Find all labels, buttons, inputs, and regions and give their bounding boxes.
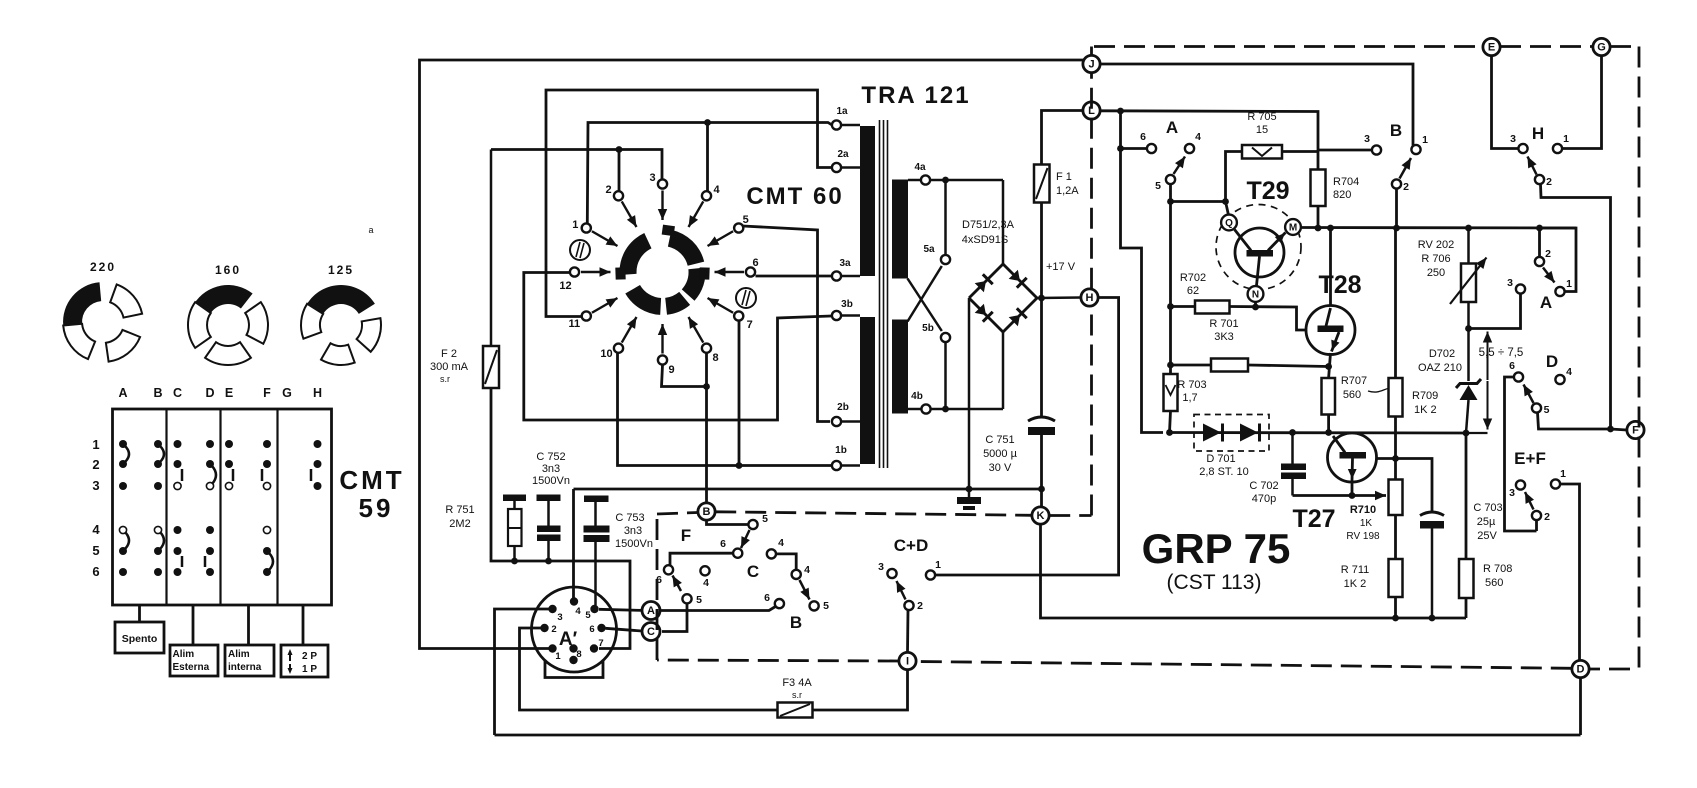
zener diode D702 OAZ210 <box>1418 329 1481 434</box>
svg-text:3: 3 <box>878 561 884 573</box>
node L <box>1083 102 1100 119</box>
svg-text:F 1: F 1 <box>1056 171 1072 183</box>
svg-text:R 751: R 751 <box>445 504 474 516</box>
svg-text:2 P: 2 P <box>302 651 317 662</box>
svg-text:62: 62 <box>1187 285 1199 297</box>
svg-text:1a: 1a <box>836 106 848 117</box>
svg-text:6: 6 <box>720 538 726 550</box>
svg-text:250: 250 <box>1427 267 1445 279</box>
svg-text:RV 198: RV 198 <box>1346 531 1380 542</box>
transformer secondary terminal 5b <box>922 323 950 342</box>
svg-text:2M2: 2M2 <box>449 518 470 530</box>
svg-text:interna: interna <box>228 662 262 673</box>
svg-text:T29: T29 <box>1246 177 1289 205</box>
wire rail loop to A right contact 1 <box>1540 228 1577 292</box>
svg-text:5b: 5b <box>922 323 934 334</box>
junction RV202 on rail <box>1465 225 1472 232</box>
svg-text:2: 2 <box>92 457 99 472</box>
node F <box>1627 421 1644 438</box>
svg-text:1500Vn: 1500Vn <box>532 475 570 487</box>
junction T28 emitter/R707 <box>1325 363 1332 370</box>
node K <box>1032 507 1049 524</box>
connector A' pin 7 <box>590 644 598 652</box>
svg-text:R707: R707 <box>1341 375 1367 387</box>
wire A' pin4 up to ground rail <box>572 489 575 602</box>
svg-text:1,2A: 1,2A <box>1056 185 1079 197</box>
switch H moving contact arrow 2-3 <box>1528 157 1537 175</box>
CMT60 terminal 4 with contact arrow <box>689 184 721 227</box>
svg-text:(CST 113): (CST 113) <box>1167 571 1262 594</box>
wire switch A contact5 down the bias chain <box>1169 184 1172 374</box>
svg-text:25µ: 25µ <box>1477 516 1496 528</box>
svg-text:R702: R702 <box>1180 272 1206 284</box>
node H <box>1081 289 1098 306</box>
svg-text:7: 7 <box>598 638 603 649</box>
CMT60 terminal 7 with contact arrow <box>708 298 753 331</box>
junction switch A right on rail <box>1536 225 1543 232</box>
svg-text:A: A <box>1540 293 1552 312</box>
svg-text:1b: 1b <box>835 445 847 456</box>
resistor R751 2M2 <box>445 495 526 562</box>
wire R711 bottom to rail <box>1394 597 1397 618</box>
svg-text:N: N <box>1252 290 1259 301</box>
connector A' keying pin <box>569 656 577 664</box>
svg-text:4: 4 <box>778 537 784 549</box>
junction R703/D701 <box>1166 429 1173 436</box>
wire T28 collector up to rail <box>1329 228 1332 306</box>
wire F contact6 to contact6 left <box>670 553 734 565</box>
svg-text:F3 4A: F3 4A <box>782 677 812 689</box>
wire T28 emitter down <box>1329 353 1331 378</box>
svg-text:GRP 75: GRP 75 <box>1142 525 1291 572</box>
svg-text:2: 2 <box>1545 248 1551 260</box>
svg-text:H: H <box>1086 292 1094 304</box>
svg-text:5: 5 <box>92 543 99 558</box>
junction switch B contact2 on rail <box>1393 225 1400 232</box>
connector A' pin 5 <box>590 605 598 613</box>
node C circle <box>642 623 660 641</box>
wire C+D contact2 to node I <box>906 610 909 652</box>
transistor T27 <box>1328 433 1377 482</box>
svg-text:D: D <box>1546 352 1558 371</box>
transistor T29 <box>1235 228 1286 286</box>
wire base junction to T27 <box>1377 457 1396 460</box>
connector A' pin 4 <box>570 597 578 605</box>
diode D701a <box>1203 424 1223 442</box>
svg-text:4: 4 <box>804 564 810 576</box>
svg-text:s.r: s.r <box>440 374 450 384</box>
svg-text:59: 59 <box>359 493 394 523</box>
junction terminal 4 branch <box>704 119 711 126</box>
junction R751 on rail <box>511 558 518 565</box>
svg-text:H: H <box>313 386 322 400</box>
switch B moving contact arrow 2-1 <box>1400 158 1412 179</box>
connector A' pin 2 <box>540 624 548 632</box>
svg-text:4: 4 <box>92 522 100 537</box>
transformer secondary terminal 4b <box>908 391 931 414</box>
wire A right contact3 to D702 junction <box>1469 294 1521 329</box>
svg-text:125: 125 <box>328 263 354 277</box>
connector A' pin 6 <box>597 624 605 632</box>
svg-text:G: G <box>282 386 292 400</box>
capacitor C703 25u <box>1420 502 1503 618</box>
svg-text:E+F: E+F <box>1514 449 1546 468</box>
ground rail wire <box>574 488 1042 491</box>
svg-text:D702: D702 <box>1429 348 1455 360</box>
switch D contact 4 <box>1555 375 1564 384</box>
svg-text:D 701: D 701 <box>1206 453 1235 465</box>
svg-text:R704: R704 <box>1333 176 1359 188</box>
capacitor C752 3n3 <box>532 451 570 561</box>
switch A right contact 1 <box>1555 287 1564 296</box>
svg-text:6: 6 <box>589 624 594 635</box>
switch A right contact 3 <box>1516 284 1525 293</box>
bridge rectifier D751 4xSD91S <box>969 264 1037 332</box>
svg-text:R 701: R 701 <box>1209 318 1238 330</box>
transformer TRA121 primary winding upper <box>860 126 875 276</box>
junction D702/RV202/switch A3 <box>1465 325 1472 332</box>
terminal N of T29 <box>1248 286 1264 302</box>
wire terminal 4 drop <box>706 123 709 191</box>
switch C+D contact 1 <box>926 570 935 579</box>
svg-text:1K 2: 1K 2 <box>1414 404 1437 416</box>
transistor T28 <box>1306 306 1355 355</box>
svg-text:5: 5 <box>762 513 768 525</box>
wire bridge bottom to 4b wire <box>1002 332 1005 409</box>
junction ground symbol <box>966 486 973 493</box>
svg-text:12: 12 <box>559 280 571 292</box>
switch F contact 5 lower <box>682 594 691 603</box>
svg-text:5,5 ÷ 7,5: 5,5 ÷ 7,5 <box>1479 347 1524 359</box>
junction switch A contact6 stub <box>1117 145 1124 152</box>
svg-text:9: 9 <box>668 364 674 376</box>
svg-text:B: B <box>703 506 711 518</box>
svg-text:1500Vn: 1500Vn <box>615 538 653 550</box>
svg-text:Alim: Alim <box>173 649 195 660</box>
CMT60 terminal 10 with contact arrow <box>600 317 636 360</box>
wire 4a to bridge <box>930 179 1003 182</box>
svg-text:5: 5 <box>696 594 702 606</box>
wire R708 top lead <box>1465 433 1468 559</box>
connector A' pin 3 <box>548 605 556 613</box>
svg-text:1: 1 <box>1422 134 1428 146</box>
svg-text:5: 5 <box>1544 404 1550 416</box>
junction T27 base <box>1392 455 1399 462</box>
svg-text:2a: 2a <box>837 149 849 160</box>
svg-text:15: 15 <box>1256 124 1268 136</box>
wire L junction down with branch to R703 <box>1121 111 1164 433</box>
wire terminal 5 to transformer 2b <box>743 226 830 422</box>
svg-text:CMT 60: CMT 60 <box>746 183 843 210</box>
svg-text:R 705: R 705 <box>1247 111 1276 123</box>
switch table CMT 59 frame <box>113 409 332 605</box>
wire table C to Alim Esterna box <box>192 605 195 645</box>
wire N to R702 junction <box>1254 302 1257 307</box>
table contacts column D <box>205 440 216 576</box>
switch C moving contact arrow 4-5 <box>800 580 810 600</box>
wire bridge plus to node H (+17V) <box>1037 296 1081 299</box>
svg-text:E: E <box>1488 42 1495 54</box>
stub ground rail to node K <box>1040 489 1043 507</box>
junction C751/ground rail <box>1038 486 1045 493</box>
range arrow 5.5-7.5 <box>1466 332 1523 434</box>
node B <box>698 503 715 520</box>
svg-text:B: B <box>790 613 802 632</box>
connector A' outline <box>532 587 617 678</box>
svg-text:4: 4 <box>713 184 720 196</box>
wire R710 top <box>1394 459 1397 480</box>
svg-text:3: 3 <box>1507 277 1513 289</box>
svg-text:1: 1 <box>935 559 941 571</box>
dashed boundary top from J to E G and right corner <box>1092 47 1640 56</box>
resistor R711 1K2 <box>1341 559 1403 597</box>
svg-text:TRA 121: TRA 121 <box>861 82 970 109</box>
transformer secondary terminal 4a <box>908 162 930 185</box>
junction terminals 8/9 <box>703 383 710 390</box>
wire C753 to A' pin5 <box>594 605 597 609</box>
svg-text:560: 560 <box>1343 389 1361 401</box>
svg-text:1: 1 <box>555 651 561 662</box>
svg-text:2: 2 <box>917 600 923 612</box>
dashed boundary left edge of switch box <box>656 514 659 660</box>
wire F2 bottom to C752 rail <box>491 388 630 649</box>
wire A' pin3 to bottom wire <box>495 609 553 735</box>
switch B contact 6 <box>775 599 784 608</box>
label CMT 59 <box>339 465 404 523</box>
svg-text:820: 820 <box>1333 189 1351 201</box>
svg-text:J: J <box>1088 59 1094 71</box>
junction terminal 7 on 1b wire <box>736 462 743 469</box>
diode pair D701 dashed box <box>1194 415 1269 452</box>
svg-text:F: F <box>263 386 271 400</box>
dashed boundary switch box top to node B <box>657 513 698 515</box>
svg-text:F: F <box>681 526 691 545</box>
svg-text:300 mA: 300 mA <box>430 361 469 373</box>
node J <box>1083 55 1100 72</box>
legend box 2P 1P <box>281 645 328 677</box>
wire table E to Alim interna box <box>247 605 250 645</box>
svg-text:11: 11 <box>568 318 580 330</box>
svg-text:6: 6 <box>1509 360 1515 372</box>
dashed boundary node I to left corner <box>657 660 899 661</box>
CMT60 terminal 2 with contact arrow <box>605 184 636 227</box>
svg-text:OAZ 210: OAZ 210 <box>1418 362 1462 374</box>
svg-text:Q: Q <box>1225 218 1233 229</box>
switch D contact 6 <box>1514 372 1523 381</box>
legend box Alim interna <box>225 645 274 676</box>
wire node I down to F3 wire <box>813 670 908 710</box>
connector A' pin 1 <box>548 644 556 652</box>
table contacts column C <box>174 440 183 576</box>
transformer TRA121 primary winding lower <box>860 317 875 464</box>
wire 4a junction down to 5a <box>944 180 947 255</box>
wire F2 to terminals 2 and 3 <box>491 150 662 180</box>
svg-text:2: 2 <box>1544 511 1550 523</box>
svg-text:M: M <box>1289 223 1297 234</box>
svg-text:A: A <box>1166 118 1178 137</box>
switch H contact 1 <box>1553 144 1562 153</box>
legend box Alim Esterna <box>170 645 218 676</box>
svg-text:C: C <box>747 562 759 581</box>
screw adjust symbol right of CMT60 <box>736 288 756 308</box>
svg-text:R709: R709 <box>1412 390 1438 402</box>
wire 4b to bridge <box>931 408 1004 411</box>
CMT60 terminal 1 with contact arrow <box>572 219 617 246</box>
wire R704 bottom to rail <box>1317 206 1320 228</box>
svg-text:R710: R710 <box>1350 504 1376 516</box>
wire terminal 8 down to node B <box>705 353 708 503</box>
switch D moving contact arrow 5-6 <box>1524 385 1534 404</box>
switch A right moving contact arrow 2-1 <box>1543 268 1555 283</box>
wire R709 bottom to base junction <box>1394 417 1397 459</box>
dashed boundary bottom right corner to node D <box>1589 668 1630 671</box>
svg-text:1K 2: 1K 2 <box>1344 578 1367 590</box>
wire F1 bottom to C751 <box>1040 203 1043 418</box>
wiper arrow into R710 <box>1352 494 1386 497</box>
svg-text:B: B <box>153 386 162 400</box>
node I <box>899 652 916 669</box>
junction C752 on rail <box>545 558 552 565</box>
svg-text:160: 160 <box>215 263 241 277</box>
svg-text:5: 5 <box>1155 180 1161 192</box>
CMT60 terminal 3 with contact arrow <box>649 172 667 220</box>
svg-text:4a: 4a <box>914 162 926 173</box>
node E <box>1483 38 1500 55</box>
svg-text:R 706: R 706 <box>1421 253 1450 265</box>
terminal Q of T29 <box>1221 215 1237 231</box>
switch C contact 5 <box>810 601 819 610</box>
svg-text:2: 2 <box>1546 176 1552 188</box>
junction N/R702 <box>1252 304 1259 311</box>
dashed boundary vertical through node H <box>1090 73 1093 516</box>
wire switch B contact3 stub <box>1318 149 1372 152</box>
CMT60 terminal 11 with contact arrow <box>568 298 617 330</box>
svg-text:+17 V: +17 V <box>1046 261 1076 273</box>
svg-text:4: 4 <box>575 606 581 617</box>
table contacts column E <box>225 440 233 490</box>
rotary selector CMT60 rotor segments <box>615 225 709 315</box>
wire R705 right to vertical <box>1282 150 1318 153</box>
dashed boundary node B to node K <box>715 512 1032 516</box>
svg-text:6: 6 <box>1140 131 1146 143</box>
switch B contact 1 <box>1411 145 1420 154</box>
terminal M of T29 <box>1285 219 1301 235</box>
wire table A to Spento box <box>138 605 141 622</box>
switch C+D contact 3 <box>887 569 896 578</box>
svg-text:Esterna: Esterna <box>173 662 210 673</box>
svg-text:5: 5 <box>823 600 829 612</box>
junction node F wire <box>1607 426 1614 433</box>
transformer TRA121 core <box>880 120 888 468</box>
secondary cross wire lower <box>908 266 942 322</box>
svg-text:1: 1 <box>1560 468 1566 480</box>
svg-text:8: 8 <box>712 352 718 364</box>
secondary cross wire upper <box>908 279 942 332</box>
switch E+F contact 1 <box>1551 479 1560 488</box>
svg-text:6: 6 <box>764 592 770 604</box>
node D <box>1572 660 1589 677</box>
dashed boundary node D to node I <box>916 662 1572 669</box>
junction R701 left <box>1167 362 1174 369</box>
resistor R704 820 <box>1311 170 1360 207</box>
wire M rail <box>1302 226 1577 229</box>
junction R711 on bottom rail <box>1392 615 1399 622</box>
svg-text:1: 1 <box>1566 278 1572 290</box>
svg-text:30 V: 30 V <box>989 462 1012 474</box>
switch F contact 6 right <box>733 549 742 558</box>
junction L rail <box>1117 108 1124 115</box>
svg-text:3K3: 3K3 <box>1214 331 1234 343</box>
svg-text:CMT: CMT <box>339 465 404 495</box>
wire L rail to R705/R704 junction <box>1100 111 1318 170</box>
svg-text:A: A <box>647 605 655 617</box>
switch A contact 6 <box>1147 144 1156 153</box>
switch A moving contact arrow 5-4 <box>1174 157 1186 175</box>
diode D701b <box>1240 424 1260 442</box>
CMT60 terminal 6 with contact arrow <box>715 257 759 277</box>
svg-text:H: H <box>1532 124 1544 143</box>
wire K down to bottom rail <box>1041 524 1467 618</box>
svg-text:Spento: Spento <box>122 633 158 645</box>
wire bridge top to 4a wire <box>1002 180 1005 264</box>
wire J to switch B contact 1 <box>1100 64 1413 146</box>
wire terminal 2 drop <box>618 150 621 191</box>
CMT60 terminal 5 with contact arrow <box>708 214 749 246</box>
wire R707 bottom to T27 collector <box>1327 415 1330 433</box>
switch A contact 5 <box>1166 175 1175 184</box>
svg-text:4b: 4b <box>911 391 923 402</box>
transformer primary terminal 3a <box>832 258 860 281</box>
transformer TRA121 secondary winding upper <box>892 180 908 279</box>
wire R708 bottom to rail end <box>1465 598 1468 618</box>
svg-text:I: I <box>906 656 909 668</box>
svg-text:4: 4 <box>1566 366 1572 378</box>
table contacts column F <box>262 440 273 576</box>
wire E down to switch H contact 3 <box>1492 56 1519 149</box>
wire A right contact2 up to rail <box>1538 228 1541 257</box>
wire node A to switch B contact 6 <box>660 607 776 611</box>
svg-text:C 752: C 752 <box>536 451 565 463</box>
svg-text:3: 3 <box>1510 133 1516 145</box>
potentiometer R710 1K RV198 <box>1346 480 1402 543</box>
junction +17V at F1/C751 vertical <box>1038 295 1045 302</box>
resistor R709 1K2 <box>1389 378 1439 417</box>
svg-text:2: 2 <box>1403 181 1409 193</box>
capacitor C702 470p <box>1249 433 1306 506</box>
svg-text:F 2: F 2 <box>441 348 457 360</box>
svg-text:3n3: 3n3 <box>542 463 560 475</box>
wire node D down to bottom wire <box>1579 678 1582 735</box>
svg-text:C: C <box>173 386 182 400</box>
fuse F1 1.2A <box>1034 165 1079 203</box>
svg-text:C+D: C+D <box>894 536 928 555</box>
wire table H to 2P/1P box <box>302 605 305 645</box>
switch E+F contact 3 <box>1516 480 1525 489</box>
wire E+F contact1 to node D <box>1560 484 1579 660</box>
legend box Spento <box>115 622 164 653</box>
wire branch to R705 and T29 collector Q <box>1171 200 1226 203</box>
svg-text:1: 1 <box>1563 133 1569 145</box>
svg-text:C 751: C 751 <box>985 434 1014 446</box>
svg-text:C 702: C 702 <box>1249 480 1278 492</box>
CMT60 terminal 12 with contact arrow <box>559 267 610 292</box>
table contacts column H <box>311 440 322 490</box>
svg-text:B: B <box>1390 121 1402 140</box>
wire up to R705 left lead <box>1226 152 1243 202</box>
screw adjust symbol left of CMT60 <box>570 240 590 260</box>
switch F contact 5 <box>748 520 757 529</box>
transformer primary terminal 3b <box>832 299 860 320</box>
